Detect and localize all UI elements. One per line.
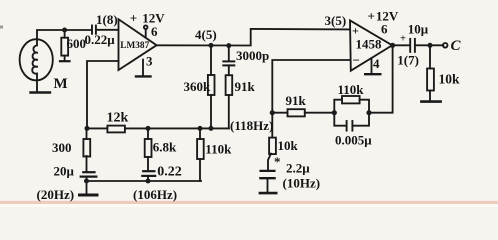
svg-text:4(5): 4(5) <box>195 27 217 42</box>
svg-text:(10Hz): (10Hz) <box>283 176 321 191</box>
svg-text:3: 3 <box>146 54 153 69</box>
svg-text:110k: 110k <box>205 142 232 157</box>
svg-text:3000p: 3000p <box>236 48 269 63</box>
svg-text:6: 6 <box>381 22 388 37</box>
svg-text:1(8): 1(8) <box>96 12 118 27</box>
svg-text:10k: 10k <box>439 72 461 87</box>
svg-text:−: − <box>353 53 360 68</box>
svg-text:0.22μ: 0.22μ <box>85 32 116 47</box>
svg-text:(118Hz): (118Hz) <box>230 118 273 133</box>
svg-text:3(5): 3(5) <box>325 13 347 28</box>
svg-text:*: * <box>274 154 281 169</box>
svg-text:2.2μ: 2.2μ <box>286 161 310 176</box>
svg-text:300: 300 <box>52 140 72 155</box>
svg-text:+: + <box>352 24 359 38</box>
svg-text:(20Hz): (20Hz) <box>37 187 75 202</box>
svg-text:600: 600 <box>67 36 87 51</box>
svg-text:91k: 91k <box>286 93 307 108</box>
svg-text:LM387: LM387 <box>120 41 149 51</box>
svg-text:(106Hz): (106Hz) <box>133 187 177 202</box>
svg-text:C: C <box>451 38 462 54</box>
svg-text:360k: 360k <box>184 79 212 94</box>
svg-text:91k: 91k <box>235 79 256 94</box>
svg-text:10k: 10k <box>278 138 299 153</box>
svg-text:10μ: 10μ <box>408 22 429 37</box>
svg-text:1(7): 1(7) <box>397 53 419 68</box>
svg-text:6.8k: 6.8k <box>153 140 177 155</box>
svg-text:M: M <box>54 76 68 92</box>
svg-text:1458: 1458 <box>356 37 383 52</box>
svg-text:20μ: 20μ <box>54 164 75 179</box>
svg-text:4: 4 <box>373 56 380 71</box>
svg-text:110k: 110k <box>338 82 365 97</box>
svg-text:12k: 12k <box>107 111 129 126</box>
svg-text:+: + <box>400 34 406 45</box>
svg-text:0.005μ: 0.005μ <box>335 133 372 148</box>
svg-text:6: 6 <box>151 24 158 39</box>
svg-text:0.22: 0.22 <box>157 165 182 180</box>
svg-text:+12V: +12V <box>130 11 165 26</box>
